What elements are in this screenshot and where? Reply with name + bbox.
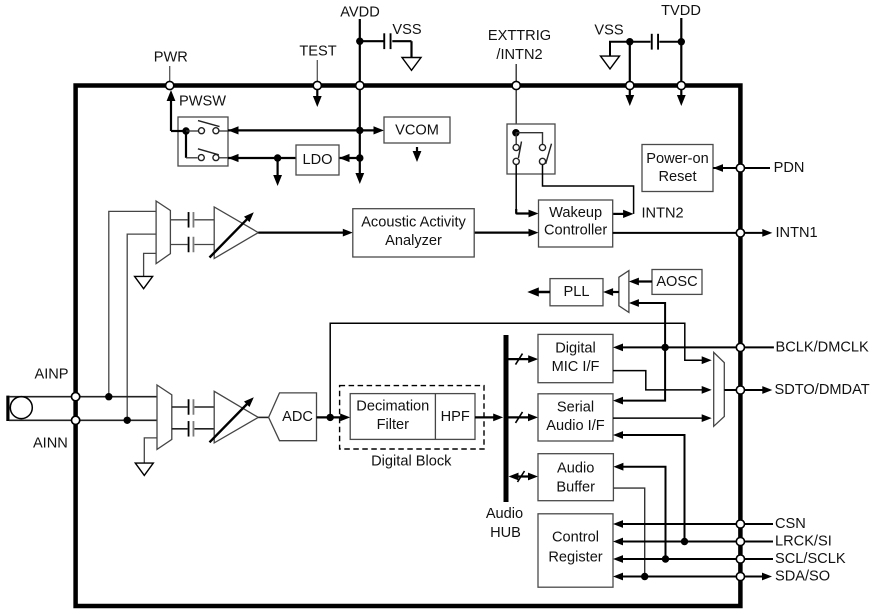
- svg-text:AINP: AINP: [34, 366, 68, 382]
- svg-text:Buffer: Buffer: [556, 480, 595, 496]
- svg-text:VSS: VSS: [594, 23, 623, 39]
- svg-text:AVDD: AVDD: [340, 5, 379, 21]
- svg-text:Audio I/F: Audio I/F: [546, 418, 604, 434]
- svg-text:TVDD: TVDD: [661, 3, 701, 19]
- svg-text:SDA/SO: SDA/SO: [775, 569, 830, 585]
- svg-text:MIC I/F: MIC I/F: [552, 359, 600, 375]
- svg-text:VSS: VSS: [392, 22, 421, 38]
- svg-text:PLL: PLL: [564, 284, 590, 300]
- svg-text:ADC: ADC: [282, 409, 313, 425]
- svg-text:LDO: LDO: [302, 152, 332, 168]
- svg-text:CSN: CSN: [775, 516, 806, 532]
- svg-text:VCOM: VCOM: [395, 122, 439, 138]
- svg-text:HUB: HUB: [490, 525, 521, 541]
- svg-text:EXTTRIG: EXTTRIG: [488, 28, 551, 44]
- svg-text:Control: Control: [552, 530, 599, 546]
- svg-text:Reset: Reset: [658, 169, 696, 185]
- svg-text:SDTO/DMDAT: SDTO/DMDAT: [775, 382, 870, 398]
- svg-text:AOSC: AOSC: [656, 274, 697, 290]
- svg-text:HPF: HPF: [441, 409, 470, 425]
- svg-text:Register: Register: [548, 550, 602, 566]
- svg-text:Digital: Digital: [555, 340, 596, 356]
- svg-text:Filter: Filter: [377, 417, 410, 433]
- svg-text:INTN1: INTN1: [776, 225, 818, 241]
- svg-text:Wakeup: Wakeup: [549, 205, 602, 221]
- svg-text:INTN2: INTN2: [642, 205, 684, 221]
- svg-text:SCL/SCLK: SCL/SCLK: [775, 551, 846, 567]
- svg-text:BCLK/DMCLK: BCLK/DMCLK: [776, 339, 870, 355]
- svg-text:Controller: Controller: [544, 223, 607, 239]
- svg-text:TEST: TEST: [299, 44, 336, 60]
- svg-text:Digital Block: Digital Block: [371, 453, 452, 469]
- svg-text:Acoustic Activity: Acoustic Activity: [361, 215, 466, 231]
- svg-text:Audio: Audio: [486, 506, 523, 522]
- svg-text:Decimation: Decimation: [356, 398, 429, 414]
- svg-text:Serial: Serial: [557, 399, 594, 415]
- svg-text:Power-on: Power-on: [646, 151, 708, 167]
- svg-text:AINN: AINN: [33, 436, 68, 452]
- svg-text:Analyzer: Analyzer: [385, 233, 442, 249]
- svg-text:Audio: Audio: [557, 461, 594, 477]
- svg-text:PWSW: PWSW: [179, 94, 226, 110]
- svg-text:PDN: PDN: [774, 160, 805, 176]
- svg-text:/INTN2: /INTN2: [496, 47, 542, 63]
- svg-text:LRCK/SI: LRCK/SI: [775, 534, 832, 550]
- svg-text:PWR: PWR: [154, 49, 188, 65]
